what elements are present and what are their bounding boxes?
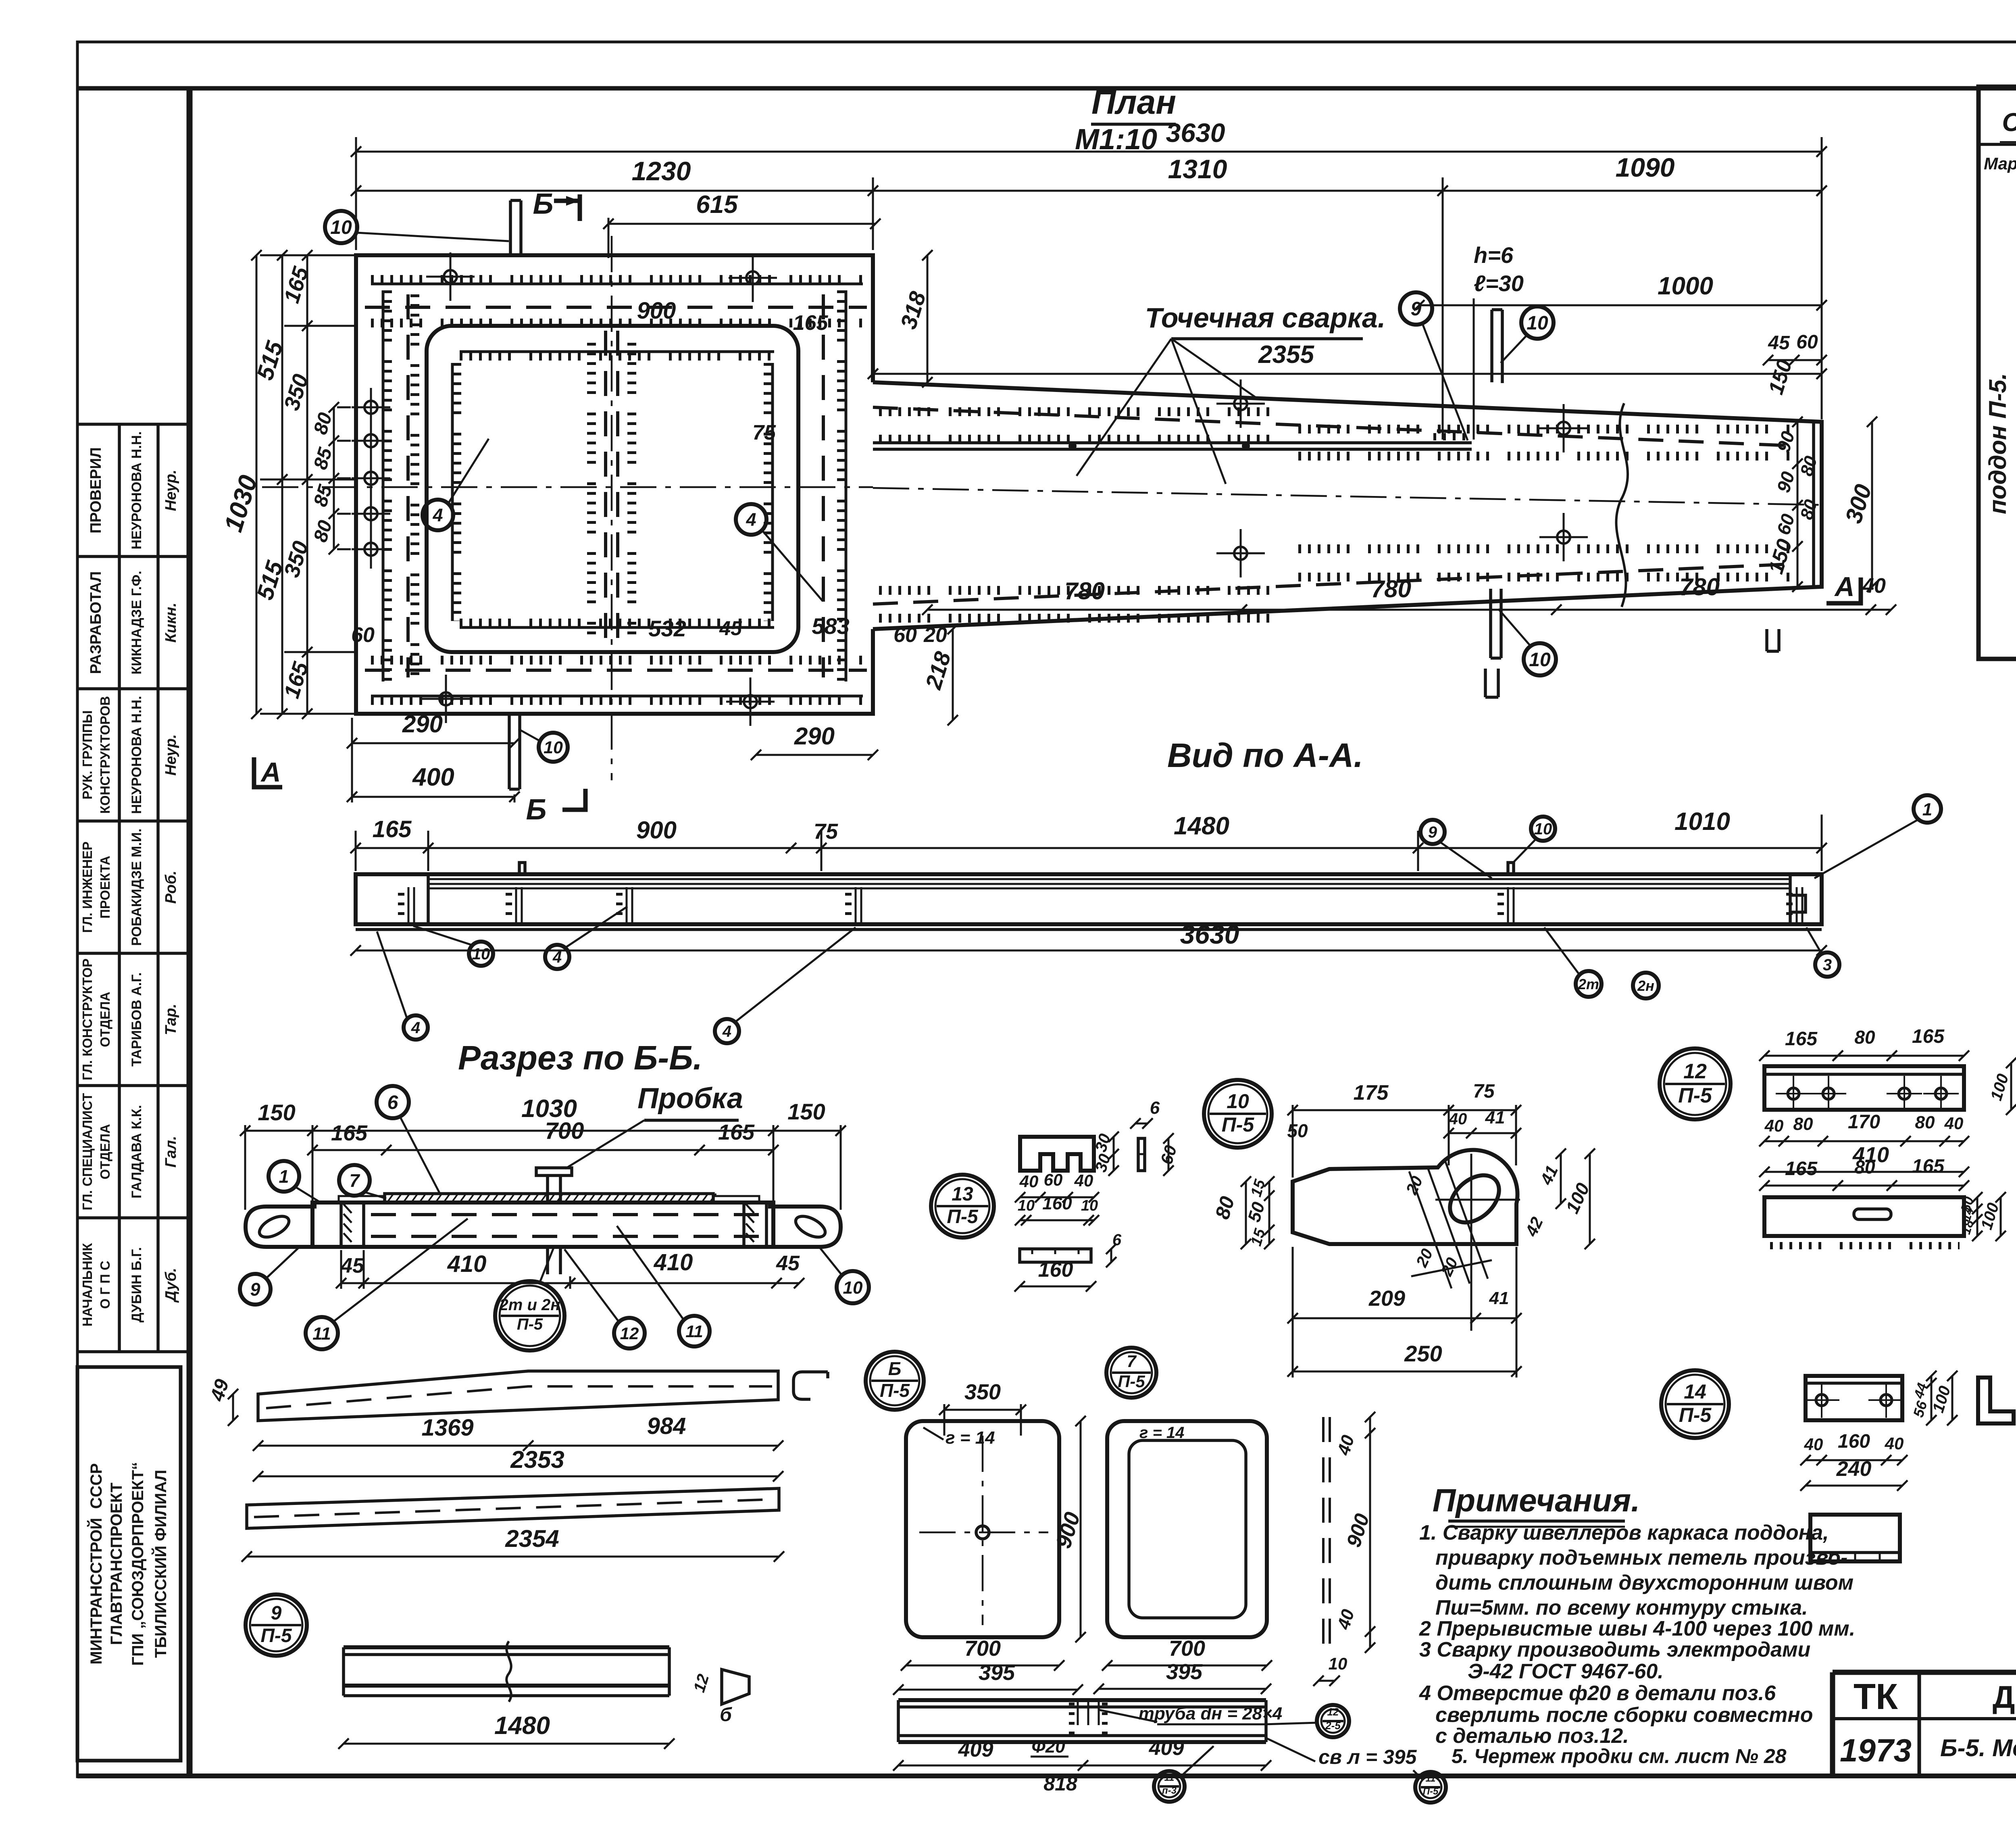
svg-text:9: 9 (250, 1279, 260, 1300)
sheet inner frame top line (77, 86, 2016, 91)
plain plate below 14 (1810, 1515, 1900, 1561)
svg-text:2н: 2н (1637, 977, 1654, 994)
svg-text:40: 40 (1019, 1172, 1039, 1191)
svg-text:План: План (1091, 83, 1176, 121)
weld hatch rounded-rect inner right (768, 363, 773, 621)
neck center strip polosa pos.9 (873, 441, 1472, 444)
spot weld symbol top band right (729, 254, 777, 302)
A-A callout 2t 2n (1576, 971, 1602, 997)
svg-text:Неур.: Неур. (162, 734, 179, 776)
svg-text:Роб.: Роб. (162, 871, 179, 904)
svg-text:П-5: П-5 (947, 1206, 979, 1228)
A-A stiffener weld marks (401, 887, 414, 924)
svg-text:ТБИЛИССКИЙ ФИЛИАЛ: ТБИЛИССКИЙ ФИЛИАЛ (151, 1470, 170, 1658)
staff cell ГАЛДАВА К.К. (80, 1093, 179, 1210)
sheet inner frame bottom border (77, 1774, 2016, 1778)
B-B right lug (pos.10) (768, 1207, 841, 1247)
detail 12 dims above 165 80 165 (1759, 1050, 1969, 1061)
svg-text:поддон П-5.: поддон П-5. (1984, 373, 2011, 514)
dimension chain 1230 1310 1090 (351, 185, 1827, 196)
svg-text:170: 170 (1848, 1111, 1880, 1133)
svg-text:О Г П С: О Г П С (98, 1261, 112, 1309)
svg-text:9: 9 (1428, 823, 1437, 841)
svg-text:165: 165 (793, 311, 829, 335)
loop edge mark below neck (1485, 669, 1498, 697)
dims 395 395 (893, 1661, 1083, 1695)
dimension 165 350 350 165 left (302, 250, 312, 719)
plan pallet neck outline (873, 382, 1822, 629)
channel section symbol (793, 1372, 828, 1399)
svg-text:с деталью поз.12.: с деталью поз.12. (1435, 1724, 1629, 1748)
svg-text:11: 11 (685, 1322, 703, 1341)
svg-text:1010: 1010 (1674, 808, 1730, 836)
spec table frame (1979, 87, 2016, 659)
A-A callout 1 (1914, 795, 1941, 823)
extension lines left (260, 254, 357, 256)
svg-text:ОТДЕЛА: ОТДЕЛА (98, 1124, 112, 1180)
svg-text:КИКНАДЗЕ Г.Ф.: КИКНАДЗЕ Г.Ф. (129, 571, 144, 674)
svg-text:12: 12 (1327, 1706, 1339, 1718)
dims 409 409 818 (893, 1760, 1271, 1771)
svg-text:10: 10 (1529, 649, 1551, 671)
svg-text:410: 410 (654, 1249, 693, 1275)
spot weld symbol neck top left (1216, 379, 1265, 428)
detail plate pos.6 700x900 with hole (906, 1421, 1059, 1637)
svg-text:1000: 1000 (1658, 272, 1713, 300)
detail 14 dims 40 160 40 240 (1800, 1455, 1908, 1465)
svg-text:400: 400 (412, 763, 454, 791)
detail 10 top dims 175 75 (1287, 1105, 1521, 1115)
A-A callout 10 left (469, 942, 493, 966)
detail 10 ellipse hole (1441, 1166, 1508, 1232)
svg-text:2 Прерывистые швы 4-100 через: 2 Прерывистые швы 4-100 через 100 мм. (1419, 1617, 1855, 1640)
svg-text:труба dн = 28×4: труба dн = 28×4 (1139, 1704, 1283, 1724)
svg-text:250: 250 (1404, 1341, 1442, 1366)
weld hatch rounded-rect inner top (460, 352, 774, 356)
svg-text:4: 4 (432, 505, 443, 525)
svg-text:60: 60 (351, 623, 375, 647)
svg-text:П-5: П-5 (1679, 1404, 1712, 1426)
detail 14 plate (1806, 1376, 1902, 1420)
svg-text:900: 900 (637, 298, 676, 324)
A-A top sheet lines (428, 878, 1790, 880)
svg-text:11: 11 (312, 1324, 331, 1344)
svg-text:1480: 1480 (494, 1712, 550, 1740)
svg-text:ПРОЕКТА: ПРОЕКТА (98, 856, 112, 919)
svg-text:9: 9 (1411, 298, 1422, 320)
assembly 818 channel pair (898, 1698, 1266, 1702)
svg-text:40: 40 (1449, 1110, 1467, 1128)
svg-text:НАЧАЛЬНИК: НАЧАЛЬНИК (80, 1243, 95, 1327)
dimension 60 90 90 60 right end (1792, 417, 1803, 592)
weld hatch band square top (371, 279, 863, 284)
weld hatch band square left (383, 290, 387, 681)
B-B channel body (312, 1203, 773, 1247)
plan vertical centerline (611, 236, 613, 780)
dimension 290 bottom left (347, 711, 520, 748)
svg-text:Пробка: Пробка (637, 1082, 743, 1115)
assembly 818 center splice with tube (1077, 1700, 1079, 1742)
svg-text:40: 40 (1764, 1116, 1784, 1135)
plan left hole row (pos.4 bolts) (352, 388, 390, 427)
svg-text:410: 410 (447, 1251, 487, 1277)
svg-text:ДОРОЖНЫЕ ЗНАКИ: ДОРОЖНЫЕ ЗНАКИ (1993, 1679, 2016, 1715)
svg-text:615: 615 (696, 191, 738, 219)
dimension 218 right (920, 624, 958, 725)
detail 10 slanted 20 20 dims (1409, 1171, 1452, 1288)
weld hatch rounded-rect inner left (452, 363, 457, 621)
svg-text:40: 40 (1804, 1435, 1823, 1454)
svg-text:г = 14: г = 14 (946, 1428, 995, 1448)
polosa 9 development outline (247, 1488, 779, 1528)
svg-text:9: 9 (271, 1603, 282, 1624)
svg-text:10: 10 (544, 738, 563, 757)
svg-text:П-5: П-5 (1222, 1113, 1255, 1136)
svg-text:780: 780 (1064, 577, 1105, 604)
svg-text:11: 11 (1164, 1772, 1175, 1783)
A-A top dimension chain 165 900 75 1480 1010 (350, 843, 1827, 853)
designator 7/P-5 (1106, 1348, 1156, 1398)
dimension 1030 plan height (219, 250, 263, 719)
svg-text:160: 160 (1042, 1194, 1072, 1213)
dimension 49 (228, 1389, 238, 1426)
callout 4 right (736, 504, 766, 535)
svg-text:Б-5. Металлическая опалубка.: Б-5. Металлическая опалубка. Поддон П-5. (1940, 1734, 2016, 1761)
svg-text:Точечная сварка.: Точечная сварка. (1145, 302, 1386, 333)
svg-text:2355: 2355 (1258, 341, 1314, 369)
svg-text:6: 6 (1112, 1231, 1122, 1249)
svg-text:Пш=5мм. по всему контуру стыка: Пш=5мм. по всему контуру стыка. (1435, 1596, 1808, 1619)
detail 10 right dims 41 100 42 (1556, 1148, 1566, 1209)
svg-text:Неур.: Неур. (162, 470, 179, 511)
callout 9 neck (1400, 292, 1432, 325)
svg-text:1: 1 (279, 1166, 289, 1187)
svg-text:7: 7 (349, 1170, 360, 1191)
B-B lug weld hatch right (746, 1204, 754, 1242)
A-A callout 3 (1815, 952, 1839, 977)
svg-text:ГЛ. СПЕЦИАЛИСТ: ГЛ. СПЕЦИАЛИСТ (80, 1093, 95, 1210)
svg-text:80: 80 (1854, 1157, 1875, 1178)
svg-text:75: 75 (814, 819, 838, 844)
callout 4 left (423, 500, 453, 530)
svg-text:РОБАКИДЗЕ М.И.: РОБАКИДЗЕ М.И. (129, 828, 144, 946)
title block frame (1833, 1672, 2016, 1776)
dimension 300 right end (1840, 417, 1877, 592)
weld hatch band square bottom (371, 656, 863, 665)
svg-text:ДУБИН Б.Г.: ДУБИН Б.Г. (129, 1247, 144, 1322)
plan inner rounded rectangle (cutout) (427, 326, 798, 652)
A-A callout 9 (1420, 820, 1445, 844)
svg-text:А: А (260, 757, 281, 788)
staff cell ТАРИБОВ А.Г. (80, 959, 179, 1080)
svg-text:209: 209 (1368, 1286, 1405, 1311)
clip trapezoid detail (722, 1669, 749, 1704)
dimension 80 85 85 80 hole spacing (329, 402, 339, 554)
callout 10 neck bottom tab (1524, 643, 1556, 675)
svg-text:св л = 395: св л = 395 (1318, 1746, 1417, 1768)
svg-text:10: 10 (330, 217, 352, 238)
svg-text:45: 45 (776, 1252, 800, 1275)
svg-text:Примечания.: Примечания. (1433, 1482, 1640, 1518)
svg-text:РАЗРАБОТАЛ: РАЗРАБОТАЛ (87, 571, 104, 674)
B-B center plug pos.12 (536, 1168, 572, 1274)
svg-text:П-5: П-5 (1118, 1372, 1145, 1391)
svg-text:150: 150 (787, 1099, 825, 1124)
svg-text:приварку подъемных петель прои: приварку подъемных петель произво- (1435, 1546, 1847, 1569)
svg-text:ℓ=30: ℓ=30 (1474, 271, 1524, 296)
svg-text:41: 41 (1489, 1288, 1509, 1308)
svg-text:50: 50 (1287, 1120, 1308, 1141)
svg-text:10: 10 (1081, 1197, 1098, 1214)
svg-text:1369: 1369 (421, 1415, 473, 1441)
svg-text:Ф20: Ф20 (1031, 1737, 1065, 1757)
organization cell (77, 1367, 181, 1761)
svg-text:350: 350 (964, 1380, 1001, 1404)
svg-text:Кикн.: Кикн. (162, 602, 179, 642)
svg-text:Б: Б (533, 188, 554, 220)
svg-text:900: 900 (636, 817, 677, 844)
svg-text:ГПИ „СОЮЗДОРПРОЕКТ“: ГПИ „СОЮЗДОРПРОЕКТ“ (129, 1462, 147, 1665)
designator 11/P-5 small left (1154, 1771, 1185, 1802)
svg-text:14: 14 (1684, 1380, 1706, 1403)
staff cell НЕУРОНОВА Н.Н. (80, 696, 179, 814)
svg-text:780: 780 (1371, 575, 1411, 602)
designator 9/P-5 (246, 1594, 307, 1656)
callout 10 neck top tab (1521, 306, 1554, 339)
svg-text:532: 532 (648, 616, 686, 641)
A-A right end channel (1790, 874, 1806, 924)
staff cell РОБАКИДЗЕ М.И. (80, 828, 179, 946)
svg-text:165: 165 (331, 1121, 368, 1145)
svg-text:1480: 1480 (1174, 812, 1229, 840)
svg-text:ПРОВЕРИЛ: ПРОВЕРИЛ (87, 447, 104, 534)
designator 10/P-5 (1204, 1080, 1272, 1148)
svg-text:2т: 2т (1578, 976, 1599, 992)
designator 12/P-5 small (1317, 1705, 1349, 1737)
plan lifting loop tab top-left (pos.10) (510, 200, 521, 255)
svg-text:НЕУРОНОВА Н.Н.: НЕУРОНОВА Н.Н. (129, 696, 144, 814)
B-B left lug (pos.10) (246, 1207, 317, 1247)
svg-text:П-5: П-5 (880, 1380, 910, 1401)
detail 12 side view with slot (1764, 1197, 1964, 1236)
svg-text:7: 7 (1127, 1352, 1137, 1371)
svg-text:10: 10 (1534, 820, 1552, 838)
channel 2t2n development outline (258, 1371, 778, 1421)
svg-text:165: 165 (1785, 1028, 1818, 1050)
detail 12 dims below 40 80 170 80 40 410 (1759, 1136, 1969, 1146)
dimension 3630 overall plan (351, 118, 1827, 157)
svg-text:2354: 2354 (505, 1525, 559, 1552)
svg-text:395: 395 (1166, 1660, 1203, 1684)
svg-text:10: 10 (1527, 313, 1548, 334)
svg-text:4: 4 (746, 509, 756, 530)
svg-text:3630: 3630 (1180, 919, 1239, 949)
dimension 290 bottom right (751, 723, 878, 760)
svg-text:Гал.: Гал. (162, 1136, 179, 1168)
svg-text:40: 40 (1885, 1434, 1904, 1453)
weld hatch neck bottom seam (873, 564, 1798, 604)
svg-text:4: 4 (411, 1019, 420, 1037)
svg-text:12: 12 (620, 1324, 639, 1343)
staff strip cells (77, 424, 190, 1352)
designator 11/P-5 small right (1415, 1772, 1446, 1803)
svg-text:П-5: П-5 (1678, 1084, 1712, 1107)
dimension chain 780 780 780 40 (922, 604, 1896, 615)
plan pallet square outline (356, 255, 873, 714)
svg-text:1230: 1230 (632, 156, 691, 186)
svg-text:Тар.: Тар. (162, 1004, 179, 1035)
svg-text:ТК: ТК (1854, 1677, 1898, 1717)
svg-text:75: 75 (752, 421, 776, 444)
svg-text:2т и 2н: 2т и 2н (499, 1296, 560, 1314)
svg-text:80: 80 (1793, 1114, 1813, 1134)
svg-text:4: 4 (722, 1023, 731, 1040)
detail 13 notched piece (1020, 1137, 1094, 1171)
svg-text:700: 700 (1169, 1636, 1205, 1661)
svg-text:п-3: п-3 (1162, 1785, 1177, 1796)
B-B callout 11 left (306, 1317, 338, 1349)
A-A callout 4 lower-mid (715, 1019, 739, 1043)
B-B callout 9 (240, 1274, 271, 1305)
A-A bar body (356, 874, 1822, 924)
svg-text:780: 780 (1679, 573, 1720, 600)
bottom bar polosa with splice (344, 1645, 669, 1649)
svg-text:Б: Б (888, 1358, 902, 1379)
svg-text:сверлить после сборки совместн: сверлить после сборки совместно (1435, 1703, 1813, 1727)
svg-text:165: 165 (718, 1120, 755, 1144)
detail 10 bottom dims 209 41 250 (1287, 1313, 1522, 1323)
svg-text:Спецификация металла на мар: Спецификация металла на марку. (2002, 108, 2016, 137)
polosa edge view dashed strip (1322, 1417, 1325, 1648)
svg-text:409: 409 (958, 1738, 993, 1761)
svg-text:45: 45 (1768, 332, 1790, 354)
svg-text:Дуб.: Дуб. (162, 1268, 179, 1303)
svg-text:240: 240 (1836, 1457, 1872, 1481)
detail 12 plate top view (1764, 1066, 1964, 1110)
B-B dim chain 165 700 165 (307, 1145, 779, 1155)
channel end mark below neck right (1767, 629, 1779, 651)
svg-text:10: 10 (1329, 1654, 1347, 1673)
svg-text:60: 60 (1796, 331, 1818, 353)
svg-text:700: 700 (545, 1118, 584, 1144)
staff cell ДУБИН Б.Г. (80, 1243, 179, 1327)
dimension 400 bottom left (347, 763, 520, 802)
detail 10 left dims 15 50 15 80 (1264, 1176, 1275, 1249)
svg-text:дить сплошным двухсторонним шв: дить сплошным двухсторонним швом (1435, 1571, 1854, 1594)
svg-text:б: б (720, 1704, 732, 1726)
svg-text:ГЛ. КОНСТРУКТОР: ГЛ. КОНСТРУКТОР (80, 959, 95, 1080)
B-B callout 6 (377, 1086, 409, 1118)
dimension 1000 neck right (1414, 272, 1827, 311)
dimension 2353 (253, 1446, 783, 1482)
B-B callout 10 (837, 1271, 869, 1303)
svg-text:ГЛАВТРАНСПРОЕКТ: ГЛАВТРАНСПРОЕКТ (108, 1483, 125, 1645)
svg-text:РУК. ГРУППЫ: РУК. ГРУППЫ (80, 710, 95, 799)
designator 12/P-5 (1660, 1048, 1731, 1119)
svg-text:НЕУРОНОВА Н.Н.: НЕУРОНОВА Н.Н. (129, 431, 144, 550)
dimension 615 (603, 191, 881, 229)
svg-text:160: 160 (1038, 1258, 1073, 1282)
detail 13 lower flat bar (1020, 1249, 1091, 1262)
detail 10 loop outline (1293, 1150, 1518, 1244)
svg-text:41: 41 (1485, 1108, 1505, 1127)
B-B lug weld hatch left (344, 1204, 352, 1242)
svg-text:Марка: Марка (1984, 154, 2016, 173)
svg-text:984: 984 (647, 1413, 686, 1439)
detail 13 edge view bar (1138, 1138, 1145, 1171)
svg-text:МИНТРАНССТРОЙ СССР: МИНТРАНССТРОЙ СССР (87, 1463, 105, 1664)
svg-text:г = 14: г = 14 (1139, 1424, 1184, 1442)
svg-text:1090: 1090 (1616, 152, 1675, 182)
B-B callout 12 (614, 1318, 645, 1348)
designator 13/P-5 (931, 1175, 994, 1238)
plan lifting loop tab bottom-left (pos.10) (509, 714, 520, 789)
svg-text:75: 75 (1473, 1081, 1495, 1102)
svg-text:80: 80 (1854, 1027, 1875, 1048)
B-B end straps pos.7 hatched (339, 1196, 385, 1203)
svg-text:4 Отверстие ф20 в детали поз.: 4 Отверстие ф20 в детали поз.6 (1419, 1682, 1776, 1705)
dimension 2354 (242, 1525, 784, 1562)
B-B dim chain 150 1030 150 (240, 1125, 846, 1136)
dimension 515 515 left (277, 250, 287, 719)
plan lifting loop tab neck-bottom (pos.10) (1491, 589, 1501, 658)
designator 6/P-5 strip (866, 1352, 924, 1410)
svg-text:45: 45 (719, 617, 742, 640)
svg-text:П-5: П-5 (517, 1315, 543, 1333)
svg-text:2-5: 2-5 (1325, 1719, 1341, 1732)
svg-text:160: 160 (1838, 1431, 1870, 1452)
dimension 1369 984 (253, 1440, 783, 1451)
callout 10 top-left tab (325, 211, 357, 243)
svg-text:13: 13 (952, 1184, 973, 1205)
svg-text:2353: 2353 (510, 1446, 564, 1473)
svg-text:165: 165 (1912, 1156, 1945, 1177)
svg-text:ГАЛДАВА К.К.: ГАЛДАВА К.К. (129, 1105, 144, 1198)
dims plate 6: 350 900 700 (939, 1380, 1026, 1415)
svg-text:700: 700 (964, 1636, 1001, 1661)
spot weld symbol neck bottom right (1539, 513, 1588, 561)
svg-text:3 Сварку производить электрод: 3 Сварку производить электродами (1419, 1638, 1810, 1661)
svg-text:3630: 3630 (1166, 118, 1225, 148)
dimension 2355 neck (868, 341, 1827, 379)
staff cell КИКНАДЗЕ Г.Ф. (87, 571, 179, 674)
svg-text:165: 165 (1912, 1026, 1945, 1047)
svg-text:6: 6 (1150, 1098, 1160, 1118)
callout 10 bottom-left tab (539, 733, 568, 762)
svg-text:П-5: П-5 (260, 1625, 292, 1646)
svg-text:10: 10 (1018, 1197, 1035, 1214)
svg-text:Э-42 ГОСТ 9467-60.: Э-42 ГОСТ 9467-60. (1468, 1660, 1664, 1683)
svg-text:409: 409 (1149, 1736, 1184, 1760)
svg-text:3: 3 (1823, 956, 1832, 974)
detail 14 angle bracket (1978, 1378, 2014, 1423)
plan horizontal centerline (262, 486, 873, 488)
B-B designator 2t i 2n / P-5 (495, 1281, 564, 1350)
svg-text:1310: 1310 (1168, 154, 1227, 184)
plan neck centerline (873, 488, 1822, 505)
plan neck end inner line (1812, 423, 1815, 586)
svg-text:20: 20 (923, 623, 947, 647)
svg-text:60: 60 (893, 623, 917, 647)
svg-text:583: 583 (812, 613, 849, 639)
svg-text:11: 11 (1426, 1773, 1436, 1784)
spot weld symbol neck bottom left (1216, 529, 1265, 577)
svg-text:А: А (1834, 571, 1854, 602)
weld hatch neck top seam (873, 407, 1798, 446)
svg-text:175: 175 (1354, 1081, 1389, 1105)
plan lifting loop tab neck-top (pos.10) (1492, 310, 1502, 383)
B-B callout 1 (269, 1161, 299, 1192)
